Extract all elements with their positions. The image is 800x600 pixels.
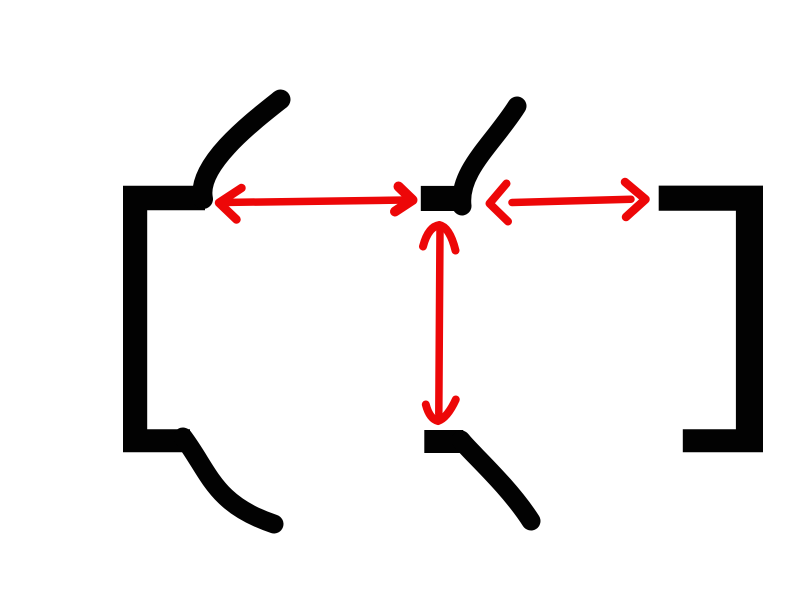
arrow head: bottom tip of vertical arrow xyxy=(426,400,456,422)
arrow shaft: right horizontal clearance xyxy=(512,199,631,202)
door leaf: bottom-center, swung open xyxy=(461,440,531,521)
arrow head: left tip of left horizontal arrow xyxy=(219,188,242,220)
door leaf: bottom-left, swung open xyxy=(183,437,274,524)
wall: center door stub (top) xyxy=(421,186,467,211)
door leaf: top-left, swung open xyxy=(202,100,280,200)
arrow head: right tip of right horizontal arrow xyxy=(625,182,646,217)
wall: right room bracket ] xyxy=(659,186,763,453)
arrow shaft: vertical clearance xyxy=(439,229,440,414)
arrow head: left tip of right horizontal arrow xyxy=(490,184,509,222)
arrow shaft: left horizontal clearance xyxy=(222,200,406,203)
door leaf: top-center, swung open xyxy=(462,106,517,206)
wall: center door stub (bottom) xyxy=(424,430,463,453)
wall: left room bracket [ xyxy=(123,186,205,453)
arrow head: top tip of vertical arrow xyxy=(423,225,456,251)
arrow head: right tip of left horizontal arrow xyxy=(395,187,413,212)
